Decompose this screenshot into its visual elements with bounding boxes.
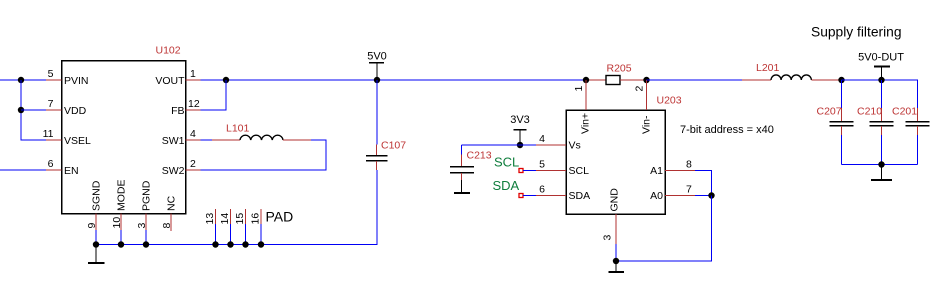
svg-text:VOUT: VOUT xyxy=(155,75,185,87)
wire SW1 to L101 xyxy=(201,139,213,141)
pin 1 VOUT xyxy=(186,79,201,81)
svg-text:10: 10 xyxy=(111,217,123,229)
svg-text:A1: A1 xyxy=(650,165,663,177)
svg-text:8: 8 xyxy=(686,159,692,171)
svg-text:5: 5 xyxy=(539,159,545,171)
svg-text:Vin+: Vin+ xyxy=(580,113,592,134)
pin 3 PGND xyxy=(145,214,147,231)
wire MODE stub xyxy=(120,230,122,245)
power 5V0-DUT symbol xyxy=(881,66,883,80)
svg-text:FB: FB xyxy=(171,105,184,117)
svg-text:7-bit address = x40: 7-bit address = x40 xyxy=(680,124,774,136)
inductor L201 xyxy=(742,79,771,81)
svg-text:NC: NC xyxy=(166,195,178,211)
wire SCL xyxy=(523,170,536,172)
svg-text:VDD: VDD xyxy=(64,105,87,117)
svg-text:14: 14 xyxy=(219,213,231,225)
svg-text:3: 3 xyxy=(136,223,148,229)
pin 3 GND xyxy=(615,214,617,244)
pin 16 xyxy=(260,209,262,224)
svg-text:U102: U102 xyxy=(156,45,181,57)
pin 1 Vin+ xyxy=(585,80,587,110)
pin 2 Vin- xyxy=(646,80,648,110)
ground symbol filter xyxy=(881,165,883,180)
pin 6 EN xyxy=(46,169,62,171)
svg-text:12: 12 xyxy=(188,98,200,110)
capacitor C107 xyxy=(376,145,378,156)
capacitor C201 xyxy=(917,108,919,121)
pin 2 SW2 xyxy=(186,169,201,171)
svg-text:5V0: 5V0 xyxy=(367,50,387,62)
svg-text:8: 8 xyxy=(161,223,173,229)
wire filter top rail xyxy=(842,80,918,108)
node A0 junction xyxy=(708,192,714,198)
svg-text:R205: R205 xyxy=(607,62,632,74)
svg-text:PGND: PGND xyxy=(141,180,153,211)
svg-text:2: 2 xyxy=(634,86,646,92)
svg-text:15: 15 xyxy=(234,213,246,225)
svg-text:5V0-DUT: 5V0-DUT xyxy=(858,51,904,63)
svg-text:C201: C201 xyxy=(892,106,917,118)
svg-text:GND: GND xyxy=(609,188,621,212)
node filter ground junction xyxy=(878,161,884,167)
wire PVIN trunk from left edge xyxy=(0,79,46,81)
op-amp U203 body xyxy=(566,110,665,214)
wire GND stub xyxy=(615,244,617,261)
capacitor C210 xyxy=(881,80,883,108)
wire C213 drop xyxy=(461,145,463,155)
wire bottom ground rail xyxy=(96,170,377,245)
svg-text:SW2: SW2 xyxy=(162,165,185,177)
pin 5 PVIN xyxy=(46,79,62,81)
svg-text:SDA: SDA xyxy=(493,178,520,193)
wire EN from left edge xyxy=(0,169,46,171)
svg-text:Vin-: Vin- xyxy=(641,115,653,134)
svg-text:L101: L101 xyxy=(226,123,250,135)
svg-text:3: 3 xyxy=(602,235,614,241)
pin 13 xyxy=(215,209,217,224)
svg-text:PVIN: PVIN xyxy=(64,75,89,87)
svg-text:11: 11 xyxy=(43,128,54,140)
svg-text:16: 16 xyxy=(250,213,262,225)
svg-text:1: 1 xyxy=(573,86,585,92)
node Vs junction xyxy=(517,142,523,148)
wire VDD branch xyxy=(21,109,46,111)
svg-text:EN: EN xyxy=(64,165,79,177)
ground symbol SGND xyxy=(95,245,97,263)
pin 14 xyxy=(230,209,232,224)
svg-text:Vs: Vs xyxy=(569,140,581,152)
svg-text:VSEL: VSEL xyxy=(64,135,91,147)
svg-text:L201: L201 xyxy=(756,62,780,74)
svg-text:4: 4 xyxy=(190,128,196,140)
inductor L101 xyxy=(212,139,240,141)
svg-text:9: 9 xyxy=(86,223,98,229)
wire vertical to VSEL xyxy=(21,80,46,140)
ground symbol U203 xyxy=(615,261,617,272)
ground symbol C213 xyxy=(461,180,463,193)
wire SDA xyxy=(523,195,536,197)
node 5V0 junction xyxy=(374,77,380,83)
node R205 left xyxy=(583,77,589,83)
pin 8 NC xyxy=(170,214,172,232)
wire SGND stub xyxy=(95,230,97,245)
power 3V3 symbol xyxy=(519,130,521,145)
node C207 junction xyxy=(838,77,844,83)
svg-text:MODE: MODE xyxy=(116,180,128,212)
node PVIN junction xyxy=(18,77,24,83)
svg-text:A0: A0 xyxy=(650,190,663,202)
pin 15 xyxy=(245,209,247,224)
svg-text:6: 6 xyxy=(48,158,54,170)
node VDD junction xyxy=(18,107,24,113)
pin 4 Vs xyxy=(536,144,566,146)
wire Vin- to L201 xyxy=(647,79,743,81)
svg-text:7: 7 xyxy=(686,184,692,196)
pin 4 SW1 xyxy=(186,139,201,141)
svg-text:6: 6 xyxy=(539,184,545,196)
svg-text:SCL: SCL xyxy=(569,165,590,177)
node VOUT junction xyxy=(223,77,229,83)
wire Vs net xyxy=(462,144,537,146)
wire A1 net xyxy=(695,171,712,196)
capacitor C213 xyxy=(461,155,463,167)
pin 6 SDA xyxy=(536,195,566,197)
svg-text:C210: C210 xyxy=(857,106,882,118)
pin 5 SCL xyxy=(536,170,566,172)
svg-text:2: 2 xyxy=(190,158,196,170)
op-amp U102 body xyxy=(62,61,186,214)
svg-text:Supply filtering: Supply filtering xyxy=(811,25,902,40)
capacitor C207 xyxy=(841,80,843,108)
svg-text:C207: C207 xyxy=(817,106,842,118)
svg-text:13: 13 xyxy=(204,213,216,225)
svg-text:3V3: 3V3 xyxy=(510,114,530,126)
pin 8 A1 xyxy=(665,170,695,172)
pin 9 SGND xyxy=(95,214,97,231)
svg-text:SCL: SCL xyxy=(494,155,519,170)
wire VOUT net to 5V0 rail xyxy=(201,79,587,81)
pin 11 VSEL xyxy=(46,139,62,141)
resistor R205 xyxy=(586,79,606,81)
wire 5V0 drop to C107 xyxy=(376,80,378,145)
svg-text:SW1: SW1 xyxy=(162,135,185,147)
svg-text:5: 5 xyxy=(48,68,54,80)
wire filter bottom rail xyxy=(842,164,918,166)
svg-text:PAD: PAD xyxy=(266,209,294,225)
svg-text:SDA: SDA xyxy=(569,190,591,202)
node GND junction xyxy=(613,258,619,264)
svg-text:SGND: SGND xyxy=(91,180,103,211)
wire PGND stub xyxy=(145,230,147,245)
svg-text:C213: C213 xyxy=(467,150,492,162)
wire L101 loop to SW2 xyxy=(201,140,327,170)
svg-text:C107: C107 xyxy=(381,140,406,152)
pin 10 MODE xyxy=(120,214,122,231)
pin 7 VDD xyxy=(46,109,62,111)
pin 7 A0 xyxy=(665,195,695,197)
svg-text:7: 7 xyxy=(48,98,54,110)
wire FB riser xyxy=(201,80,227,110)
svg-text:1: 1 xyxy=(190,68,196,80)
power 5V0 symbol xyxy=(376,63,378,81)
node rail junctions xyxy=(93,241,99,247)
wire A0 to ground run xyxy=(616,196,712,262)
node R205 right xyxy=(643,77,649,83)
pin 12 FB xyxy=(186,109,201,111)
wire pad stubs xyxy=(215,224,217,245)
svg-text:U203: U203 xyxy=(657,94,682,106)
wire A0 net xyxy=(695,195,712,197)
node C210 junction xyxy=(878,77,884,83)
svg-text:4: 4 xyxy=(539,133,545,145)
